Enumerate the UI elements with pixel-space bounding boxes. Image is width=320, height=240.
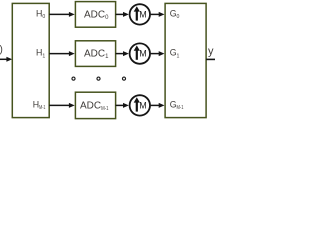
- wire HM-1 to ADCM-1: [49, 103, 74, 108]
- ADC0 box: [75, 2, 115, 28]
- ADC1 box: [75, 41, 115, 67]
- svg-text:M: M: [139, 9, 147, 19]
- wire upsampler1 to G1: [151, 51, 165, 56]
- output wire y: [206, 58, 215, 60]
- synthesis filter bank box: [165, 3, 206, 117]
- wire H0 to ADC0: [49, 12, 74, 17]
- wire upsampler0 to G0: [151, 12, 165, 17]
- wire H1 to ADC1: [49, 51, 74, 56]
- svg-text:x(t): x(t): [0, 44, 3, 55]
- wire ADC0 to upsampler0: [116, 12, 129, 17]
- svg-text:M: M: [139, 49, 147, 59]
- ADCM-1 box: [75, 92, 115, 118]
- analysis filter bank box: [12, 3, 49, 117]
- input wire x(t): [0, 57, 12, 62]
- ellipsis dot 3: [122, 77, 125, 80]
- upsampler M-1 (up-arrow M circle): [130, 95, 150, 115]
- ellipsis dot 2: [97, 77, 100, 80]
- upsampler 0 (up-arrow M circle): [130, 4, 150, 24]
- wire upsamplerM-1 to GM-1: [151, 103, 165, 108]
- ellipsis dot 1: [72, 77, 75, 80]
- wire ADCM-1 to upsamplerM-1: [116, 103, 129, 108]
- svg-text:M: M: [139, 100, 147, 110]
- wire ADC1 to upsampler1: [116, 51, 129, 56]
- upsampler 1 (up-arrow M circle): [130, 43, 150, 63]
- svg-text:y: y: [208, 46, 214, 58]
